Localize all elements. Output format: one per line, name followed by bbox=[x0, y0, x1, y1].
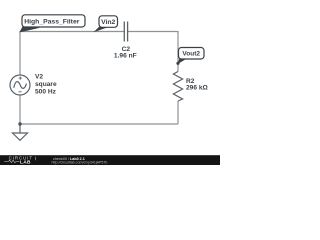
svg-text:V2: V2 bbox=[35, 74, 43, 81]
svg-text:Vout2: Vout2 bbox=[182, 51, 200, 58]
wire top horizontal right segment bbox=[128, 31, 178, 33]
ground bbox=[13, 124, 28, 140]
voltage source V2 bbox=[10, 75, 30, 95]
svg-text:296 kΩ: 296 kΩ bbox=[186, 85, 209, 92]
svg-text:500 Hz: 500 Hz bbox=[35, 89, 57, 96]
V2 plus sign bbox=[19, 77, 22, 80]
wire top horizontal left segment bbox=[20, 31, 124, 33]
capacitor C2 bbox=[124, 22, 127, 42]
logo resistor squiggle bbox=[4, 160, 19, 163]
svg-text:Vin2: Vin2 bbox=[101, 19, 115, 26]
logo divider tick bbox=[35, 157, 37, 161]
V2 value label bbox=[35, 74, 57, 96]
junction dot bottom-left node bbox=[18, 122, 21, 125]
net flag High_Pass_Filter bbox=[19, 15, 85, 33]
net flag Vout2 bbox=[177, 48, 204, 65]
net flag Vin2 bbox=[94, 16, 118, 32]
wire right vertical lower bbox=[177, 101, 179, 124]
wire right vertical upper bbox=[177, 31, 179, 72]
wire left vertical upper bbox=[19, 31, 21, 75]
footer bar bbox=[0, 155, 220, 165]
wire left vertical lower bbox=[19, 95, 21, 124]
wire bottom horizontal bbox=[20, 123, 178, 125]
node dot Vout2 anchor bbox=[176, 62, 179, 65]
V2 minus sign bbox=[18, 91, 21, 93]
svg-text:1.96 nF: 1.96 nF bbox=[114, 53, 137, 60]
svg-text:square: square bbox=[35, 81, 57, 88]
resistor R2 value label bbox=[186, 78, 209, 92]
CircuitLab logo bbox=[9, 156, 33, 166]
capacitor C2 value label bbox=[114, 46, 137, 60]
svg-text:LAB: LAB bbox=[20, 160, 31, 166]
resistor R2 bbox=[173, 72, 182, 102]
svg-text:High_Pass_Filter: High_Pass_Filter bbox=[24, 19, 80, 26]
svg-text:http://circuitlab.com/c/xy341j: http://circuitlab.com/c/xy341jAP57b bbox=[52, 161, 108, 165]
